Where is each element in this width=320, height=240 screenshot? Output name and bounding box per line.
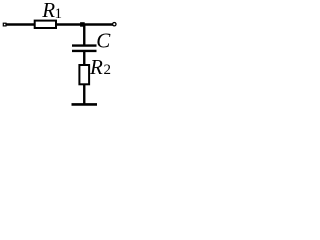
wire R2 to ground xyxy=(83,84,85,104)
resistor R2 xyxy=(79,65,89,84)
svg-text:C: C xyxy=(96,29,111,53)
label R1 xyxy=(41,0,62,22)
wire branch upper (junction to capacitor) xyxy=(83,25,85,46)
svg-text:R: R xyxy=(41,0,55,22)
svg-text:2: 2 xyxy=(104,62,112,78)
node junction dot xyxy=(80,22,85,27)
svg-text:R: R xyxy=(89,55,103,79)
resistor R1 xyxy=(35,21,56,28)
terminal left (open square) xyxy=(3,23,6,26)
label R2 xyxy=(89,55,111,79)
ground xyxy=(72,103,98,106)
capacitor C xyxy=(72,46,97,51)
wire capacitor to R2 xyxy=(83,51,85,65)
wire top horizontal xyxy=(6,23,114,25)
svg-text:1: 1 xyxy=(55,6,63,22)
terminal right (open circle) xyxy=(113,23,116,26)
